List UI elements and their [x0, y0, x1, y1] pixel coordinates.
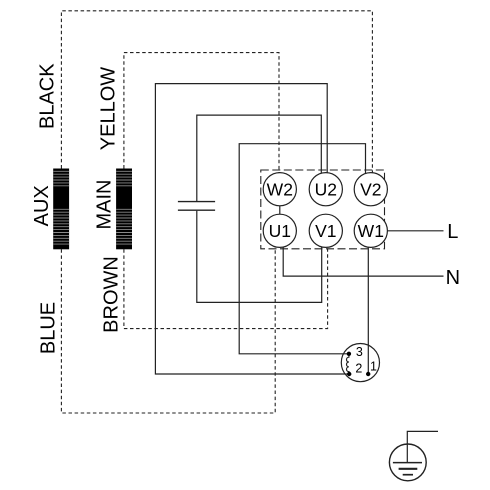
svg-text:V1: V1 [315, 221, 336, 241]
capacitor C [178, 202, 215, 211]
svg-text:V2: V2 [360, 179, 381, 199]
terminal W2 [263, 173, 296, 206]
svg-text:3: 3 [356, 345, 363, 359]
ground wire [407, 431, 438, 462]
wire YELLOW (dashed, MAIN top to W2) [124, 53, 279, 173]
svg-text:2: 2 [355, 362, 362, 376]
svg-text:U2: U2 [315, 179, 337, 199]
svg-text:BLACK: BLACK [37, 63, 59, 129]
terminal block outline [261, 170, 385, 249]
svg-text:W2: W2 [267, 179, 293, 199]
winding AUX [53, 169, 69, 250]
connector coil between pin 3 and pin 2 [346, 356, 349, 372]
terminal W1 [354, 214, 387, 247]
svg-text:BLUE: BLUE [38, 302, 60, 354]
svg-text:W1: W1 [358, 221, 384, 241]
wire U2 to connector pin 2 (via left rectangle) [155, 84, 347, 374]
wire capacitor bottom to V1 [197, 211, 322, 303]
jumper W2-U1 [279, 206, 281, 215]
ground (protective earth) symbol [389, 444, 426, 481]
svg-text:N: N [446, 267, 460, 289]
wire BROWN (dashed, MAIN bottom to V1) [124, 247, 328, 328]
wire BLACK (dashed, AUX top to V2) [61, 11, 372, 173]
svg-text:1: 1 [370, 359, 377, 373]
svg-text:L: L [447, 221, 458, 243]
svg-text:BROWN: BROWN [101, 256, 123, 333]
winding MAIN [116, 169, 132, 250]
connector plug P1 [341, 344, 379, 382]
terminal U2 [309, 173, 342, 206]
terminal V2 [354, 173, 387, 206]
svg-text:AUX: AUX [31, 185, 53, 226]
svg-text:YELLOW: YELLOW [98, 67, 120, 150]
wire U2 to capacitor top [197, 115, 321, 201]
connector pin 3 dot [347, 352, 351, 356]
connector pin 1 dot [366, 372, 370, 376]
svg-text:MAIN: MAIN [94, 180, 116, 230]
wire N (from U1) [283, 247, 443, 276]
terminal U1 [263, 214, 296, 247]
connector pin 2 dot [347, 372, 351, 376]
wire W1 to connector pin 1 [367, 247, 369, 372]
wire L (from W1) [387, 230, 443, 232]
wire V2 to connector pin 3 [239, 144, 365, 354]
terminal V1 [309, 214, 342, 247]
wire BLUE (dashed, AUX bottom to U1) [61, 247, 275, 413]
svg-text:U1: U1 [269, 221, 291, 241]
